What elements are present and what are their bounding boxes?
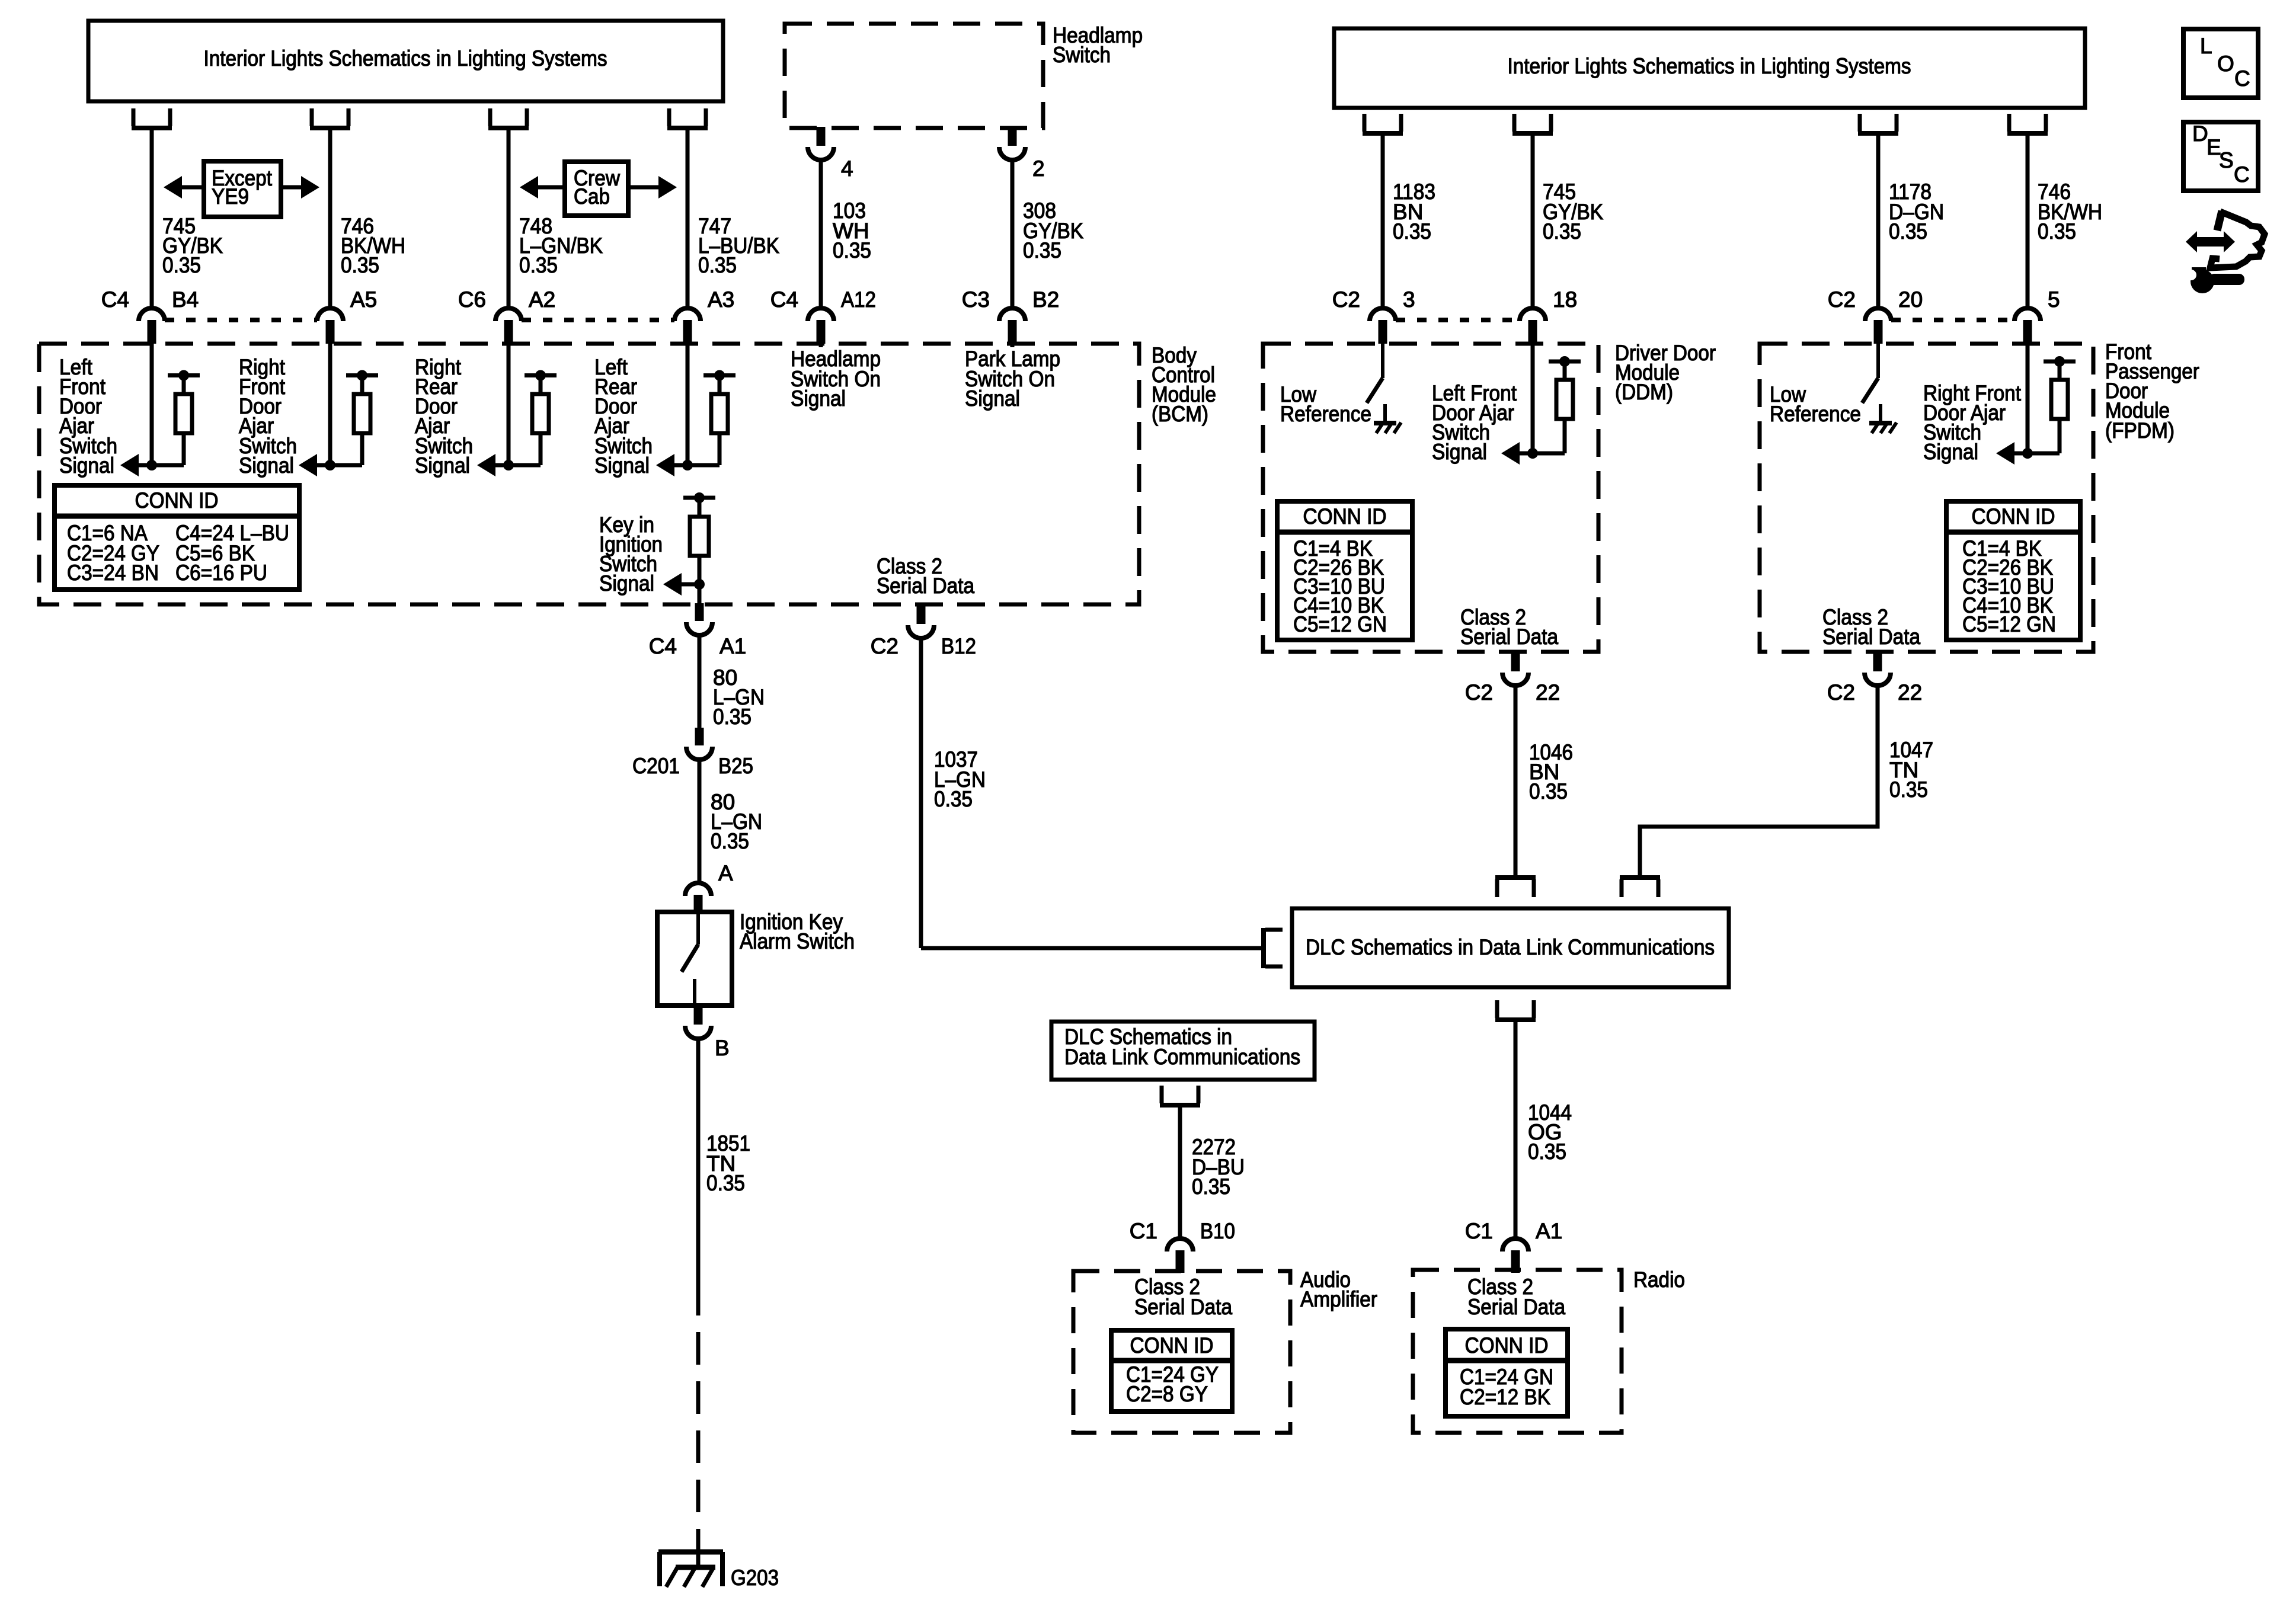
svg-text:Signal: Signal xyxy=(1923,440,1978,464)
svg-text:0.35: 0.35 xyxy=(1529,779,1568,804)
svg-text:G203: G203 xyxy=(731,1566,779,1590)
svg-text:(BCM): (BCM) xyxy=(1152,402,1208,426)
wire 747 L-BU/BK from Interior Lights xyxy=(686,128,690,308)
connector bracket under left Interior Lights box, drop 1 xyxy=(133,108,170,126)
supply stub bar with junction dot xyxy=(346,373,378,377)
option arrow right (Except YE9 to wire 746) xyxy=(281,185,301,190)
svg-text:C2=12 BK: C2=12 BK xyxy=(1460,1385,1550,1409)
wire 1046 BN xyxy=(1514,686,1518,878)
svg-text:0.35: 0.35 xyxy=(1528,1140,1566,1164)
svg-text:B25: B25 xyxy=(718,754,753,778)
DLC top bracket (from FPDM 1047 TN) xyxy=(1620,875,1660,880)
legend box LOC xyxy=(2183,29,2258,98)
connector bracket under left Interior Lights box, drop 4 xyxy=(669,108,706,126)
junction node at door ajar signal (wire x=1160) xyxy=(682,460,693,470)
svg-text:Radio: Radio xyxy=(1633,1267,1685,1292)
audio amplifier CONN ID table xyxy=(1111,1330,1232,1411)
connector bracket under right Interior Lights box, drop 3 xyxy=(1860,114,1897,132)
svg-text:Serial Data: Serial Data xyxy=(1822,625,1920,649)
in-line connector at door module pin 20 xyxy=(1865,308,1891,321)
svg-text:Reference: Reference xyxy=(1770,402,1861,426)
svg-text:C3=24 BN: C3=24 BN xyxy=(67,561,159,585)
wire 1047 TN xyxy=(1876,686,1880,827)
in-line connector at BCM pin B2 xyxy=(999,308,1025,321)
DDM CONN ID table xyxy=(1277,501,1412,640)
svg-text:D: D xyxy=(2192,121,2208,146)
svg-text:0.35: 0.35 xyxy=(711,829,749,853)
wire 80 L-GN (lower segment) xyxy=(698,760,702,884)
wire inside BCM at x=557 xyxy=(328,344,332,465)
module box: Driver Door Module DDM (dashed) xyxy=(1263,344,1598,652)
svg-text:A: A xyxy=(718,861,733,885)
signal arrow xyxy=(315,463,330,468)
in-line connector C201 / B25 xyxy=(695,728,704,745)
connector at ignition switch pin A xyxy=(685,883,711,896)
wire 748 L-GN/BK from Interior Lights xyxy=(507,128,511,308)
wire 308 GY/BK (headlamp switch pin 2 to BCM B2) xyxy=(1011,160,1015,308)
FPDM CONN ID table xyxy=(1946,501,2080,640)
wire resistor to supply stub xyxy=(2058,361,2062,380)
low reference switch (FPDM) xyxy=(1876,344,1880,378)
junction node at door ajar signal (wire x=557) xyxy=(325,460,335,470)
svg-text:0.35: 0.35 xyxy=(1393,219,1431,244)
resistor (door ajar pull-up) xyxy=(354,394,370,433)
svg-text:18: 18 xyxy=(1553,287,1577,312)
svg-text:B2: B2 xyxy=(1032,287,1059,312)
svg-text:CONN ID: CONN ID xyxy=(135,488,219,513)
svg-text:C2: C2 xyxy=(1332,287,1360,312)
key-in supply stub bar with dot xyxy=(683,496,715,500)
svg-text:0.35: 0.35 xyxy=(2038,219,2076,244)
svg-text:0.35: 0.35 xyxy=(519,253,558,277)
wire 746 BK/WH to FPDM xyxy=(2026,133,2030,308)
svg-text:A5: A5 xyxy=(350,287,377,312)
DLC bottom bracket (to radio 1044 OG) xyxy=(1497,1000,1534,1018)
supply stub bar with junction dot xyxy=(1549,360,1581,364)
svg-text:C1: C1 xyxy=(1465,1219,1493,1243)
junction node at door ajar signal (wire x=858) xyxy=(503,460,514,470)
in-line connector C2 / 22 (FPDM) xyxy=(1873,651,1882,671)
connector bracket under right Interior Lights box, drop 4 xyxy=(2009,114,2046,132)
svg-text:C: C xyxy=(2234,66,2250,91)
svg-text:C2: C2 xyxy=(871,634,898,658)
wire inside BCM at x=1160 xyxy=(686,344,690,465)
in-line connector C2 / B12 xyxy=(917,603,926,624)
connector C2 dotted link 20-5 xyxy=(1891,318,2014,322)
svg-text:C4: C4 xyxy=(649,634,677,658)
DLC top bracket (from DDM 1046 BN) xyxy=(1495,875,1536,880)
wire to resistor xyxy=(687,463,720,468)
wire resistor to supply stub xyxy=(182,376,186,395)
svg-text:C4: C4 xyxy=(770,287,798,312)
BCM CONN ID table xyxy=(55,485,299,590)
small ground (DDM low reference) xyxy=(1383,404,1387,423)
svg-text:C5=12 GN: C5=12 GN xyxy=(1962,612,2056,636)
svg-text:L: L xyxy=(2200,34,2212,58)
svg-text:C3: C3 xyxy=(962,287,990,312)
connector bracket under left Interior Lights box, drop 3 xyxy=(490,108,527,126)
svg-text:C2: C2 xyxy=(1827,680,1855,705)
svg-text:B4: B4 xyxy=(172,287,199,312)
svg-text:A3: A3 xyxy=(708,287,734,312)
svg-text:2: 2 xyxy=(1032,156,1045,181)
svg-text:C2: C2 xyxy=(1828,287,1856,312)
svg-text:0.35: 0.35 xyxy=(1543,219,1581,244)
option box: Except YE9 xyxy=(204,161,281,217)
radio CONN ID table xyxy=(1446,1329,1568,1416)
wire 1044 OG xyxy=(1514,1020,1518,1240)
module box: Front Passenger Door Module FPDM (dashed) xyxy=(1760,344,2093,652)
svg-text:Reference: Reference xyxy=(1280,402,1371,426)
svg-text:Serial Data: Serial Data xyxy=(1460,625,1558,649)
wire inside BCM at x=256 xyxy=(150,344,154,465)
svg-text:Signal: Signal xyxy=(59,453,114,478)
small ground (FPDM low reference) xyxy=(1879,404,1882,423)
svg-text:C2: C2 xyxy=(1465,680,1493,705)
connector bracket under left Interior Lights box, drop 2 xyxy=(312,108,348,126)
junction node at door ajar signal (wire x=256) xyxy=(146,460,157,470)
junction node at door ajar signal (wire x=3421) xyxy=(2022,448,2033,459)
svg-text:C5=12 GN: C5=12 GN xyxy=(1293,612,1387,636)
connector bracket under right Interior Lights box, drop 1 xyxy=(1364,114,1401,132)
DLC left bracket xyxy=(1261,928,1266,968)
supply stub bar with junction dot xyxy=(703,373,736,377)
signal arrow xyxy=(2012,452,2028,456)
connector C4 dotted link B4-A5 xyxy=(165,318,317,322)
wire resistor to supply stub xyxy=(718,376,722,395)
wire to resistor xyxy=(1533,452,1565,456)
svg-text:0.35: 0.35 xyxy=(341,253,379,277)
resistor (door ajar pull-up) xyxy=(2051,380,2068,419)
in-line connector at BCM pin A5 xyxy=(317,308,343,321)
wire to resistor xyxy=(2028,452,2060,456)
resistor (door ajar pull-up) xyxy=(175,394,192,433)
svg-text:C: C xyxy=(2234,162,2250,187)
svg-text:A1: A1 xyxy=(1536,1219,1562,1243)
in-line connector at BCM pin A3 xyxy=(674,308,701,321)
legend box DESC xyxy=(2183,122,2258,191)
svg-text:0.35: 0.35 xyxy=(1889,219,1927,244)
supply stub bar with junction dot xyxy=(525,373,557,377)
svg-text:B10: B10 xyxy=(1200,1219,1235,1243)
svg-text:3: 3 xyxy=(1403,287,1415,312)
headlamp switch terminal pin 2 xyxy=(1008,127,1017,146)
module box: Audio Amplifier (dashed) xyxy=(1073,1271,1290,1433)
wire resistor to key-in junction xyxy=(698,556,702,584)
svg-text:0.35: 0.35 xyxy=(934,787,973,811)
svg-text:Amplifier: Amplifier xyxy=(1300,1287,1377,1311)
svg-text:B12: B12 xyxy=(941,634,976,658)
svg-text:Serial Data: Serial Data xyxy=(1134,1295,1232,1319)
svg-text:0.35: 0.35 xyxy=(162,253,201,277)
in-line connector C4 / A1 (key in ignition) xyxy=(695,603,704,621)
svg-text:(FPDM): (FPDM) xyxy=(2105,418,2175,443)
connector at ignition switch pin B xyxy=(694,1006,703,1025)
in-line connector at door module pin 18 xyxy=(1520,308,1546,321)
signal arrow xyxy=(493,463,509,468)
wire 1037 L-GN vertical xyxy=(919,638,923,948)
module box: Body Control Module BCM (dashed) xyxy=(39,344,1139,604)
svg-text:DLC Schematics in Data Link Co: DLC Schematics in Data Link Communicatio… xyxy=(1306,935,1715,959)
svg-text:C4: C4 xyxy=(101,287,129,312)
svg-text:0.35: 0.35 xyxy=(1889,777,1928,802)
ground G203 xyxy=(696,1536,701,1570)
svg-text:Data Link Communications: Data Link Communications xyxy=(1064,1045,1300,1069)
supply stub bar with junction dot xyxy=(168,373,200,377)
svg-text:0.35: 0.35 xyxy=(1023,238,1061,263)
svg-text:5: 5 xyxy=(2048,287,2060,312)
key-in signal arrow xyxy=(682,582,699,587)
svg-text:Serial Data: Serial Data xyxy=(1467,1295,1565,1319)
svg-text:4: 4 xyxy=(841,156,853,181)
svg-text:Signal: Signal xyxy=(791,386,846,411)
svg-text:CONN ID: CONN ID xyxy=(1465,1333,1549,1358)
svg-text:Switch: Switch xyxy=(1053,43,1111,67)
wire 1851 TN (solid segment) xyxy=(696,1039,701,1283)
svg-text:0.35: 0.35 xyxy=(713,705,752,729)
svg-text:Interior Lights Schematics in: Interior Lights Schematics in Lighting S… xyxy=(1508,54,1911,78)
svg-text:0.35: 0.35 xyxy=(833,238,871,263)
module box: Interior Lights Schematics (left) xyxy=(88,21,723,101)
svg-text:0.35: 0.35 xyxy=(1192,1174,1230,1199)
signal arrow xyxy=(1517,452,1533,456)
resistor (door ajar pull-up) xyxy=(1556,380,1573,419)
in-line connector at door module pin 3 xyxy=(1370,308,1396,321)
in-line connector C1 / B10 xyxy=(1167,1238,1193,1251)
svg-text:Signal: Signal xyxy=(239,453,294,478)
wire to resistor xyxy=(152,463,184,468)
wire 80 L-GN (upper segment) xyxy=(698,635,702,728)
option arrow left (Except YE9 to wire 745) xyxy=(182,185,204,190)
wire 103 WH (headlamp switch pin 4 to BCM A12) xyxy=(819,160,823,308)
svg-text:0.35: 0.35 xyxy=(706,1171,745,1195)
in-line connector C2 / 22 (DDM) xyxy=(1511,651,1520,671)
svg-text:Signal: Signal xyxy=(965,386,1020,411)
svg-text:0.35: 0.35 xyxy=(698,253,737,277)
legend icon: vehicle profile with double arrow and wrench xyxy=(2186,231,2235,252)
wire resistor to supply stub xyxy=(1563,361,1567,380)
component box: Ignition Key Alarm Switch xyxy=(657,912,732,1006)
svg-text:CONN ID: CONN ID xyxy=(1303,504,1387,529)
svg-text:CONN ID: CONN ID xyxy=(1130,1333,1214,1358)
wire key-in junction to BCM edge xyxy=(698,584,702,604)
wire resistor to supply stub xyxy=(539,376,543,395)
svg-text:Alarm Switch: Alarm Switch xyxy=(740,929,855,953)
resistor (door ajar pull-up) xyxy=(532,394,549,433)
svg-text:22: 22 xyxy=(1536,680,1560,705)
svg-text:O: O xyxy=(2217,52,2234,76)
wire inside BCM at x=858 xyxy=(507,344,511,465)
wire 2272 D-BU xyxy=(1178,1105,1182,1240)
svg-text:Signal: Signal xyxy=(599,571,654,596)
reference box: DLC Schematics in Data Link Communications (small) xyxy=(1051,1022,1315,1080)
svg-text:Interior Lights Schematics in: Interior Lights Schematics in Lighting S… xyxy=(204,46,607,71)
svg-text:Cab: Cab xyxy=(574,184,610,209)
svg-text:Signal: Signal xyxy=(1432,440,1487,464)
svg-text:C2=8 GY: C2=8 GY xyxy=(1126,1382,1208,1406)
switch blade (ignition key alarm switch) xyxy=(696,912,700,945)
low reference switch (DDM) xyxy=(1381,344,1384,378)
option arrow right (Crew Cab to wire 747) xyxy=(628,185,658,190)
wire 1037 L-GN horizontal to DLC xyxy=(921,946,1262,950)
wire to resistor xyxy=(509,463,541,468)
junction node key-in signal xyxy=(694,579,705,590)
wire 745 GY/BK to DDM xyxy=(1531,133,1535,308)
junction node at door ajar signal (wire x=2586) xyxy=(1527,448,1538,459)
in-line connector at door module pin 5 xyxy=(2014,308,2041,321)
wire resistor to supply stub xyxy=(360,376,364,395)
signal arrow xyxy=(136,463,152,468)
svg-text:C6: C6 xyxy=(458,287,486,312)
connector C2 dotted link 3-18 xyxy=(1396,318,1520,322)
resistor (door ajar pull-up) xyxy=(711,394,728,433)
svg-text:YE9: YE9 xyxy=(212,184,249,209)
wire 1851 TN (dashed segment to ground) xyxy=(696,1283,701,1541)
svg-text:22: 22 xyxy=(1898,680,1922,705)
svg-text:Signal: Signal xyxy=(594,453,650,478)
wire 1183 BN from Interior Lights xyxy=(1381,133,1385,308)
in-line connector C1 / A1 (radio) xyxy=(1502,1238,1528,1251)
wire 745 inside DDM xyxy=(1531,344,1535,453)
svg-text:(DDM): (DDM) xyxy=(1615,380,1673,404)
connector C6 dotted link A2-A3 xyxy=(522,318,674,322)
wire 1178 D-GN from Interior Lights xyxy=(1876,133,1881,308)
in-line connector at BCM pin A12 xyxy=(808,308,834,321)
supply stub bar with junction dot xyxy=(2044,360,2076,364)
connector bracket under right Interior Lights box, drop 2 xyxy=(1514,114,1551,132)
svg-text:C201: C201 xyxy=(632,754,680,778)
wire 746 inside FPDM xyxy=(2026,344,2030,453)
in-line connector at BCM pin B4 xyxy=(139,308,165,321)
svg-text:S: S xyxy=(2219,148,2234,172)
option arrow left (Crew Cab to wire 748) xyxy=(538,185,565,190)
svg-text:Serial Data: Serial Data xyxy=(877,574,974,598)
module box: Radio (dashed) xyxy=(1413,1270,1622,1433)
svg-text:20: 20 xyxy=(1898,287,1923,312)
wire 746 BK/WH from Interior Lights xyxy=(328,128,332,308)
wire to resistor xyxy=(330,463,362,468)
option box: Crew Cab xyxy=(565,162,628,216)
svg-text:A12: A12 xyxy=(841,287,876,312)
svg-text:B: B xyxy=(715,1036,730,1060)
wire 745 GY/BK from Interior Lights (segment above BCM) xyxy=(150,128,154,308)
signal arrow xyxy=(672,463,687,468)
svg-text:A1: A1 xyxy=(720,634,746,658)
svg-text:A2: A2 xyxy=(529,287,555,312)
module box: Interior Lights Schematics (right) xyxy=(1334,28,2085,108)
svg-text:CONN ID: CONN ID xyxy=(1972,504,2055,529)
svg-text:Signal: Signal xyxy=(415,453,470,478)
bracket under small DLC box xyxy=(1162,1086,1198,1103)
svg-text:C6=16 PU: C6=16 PU xyxy=(175,561,267,585)
component box: Headlamp Switch (dashed) xyxy=(785,24,1043,128)
svg-text:C1: C1 xyxy=(1130,1219,1157,1243)
resistor (key in ignition) xyxy=(690,517,709,556)
reference box: DLC Schematics in Data Link Communications xyxy=(1292,908,1729,987)
headlamp switch terminal pin 4 xyxy=(817,127,826,146)
in-line connector at BCM pin A2 xyxy=(495,308,522,321)
